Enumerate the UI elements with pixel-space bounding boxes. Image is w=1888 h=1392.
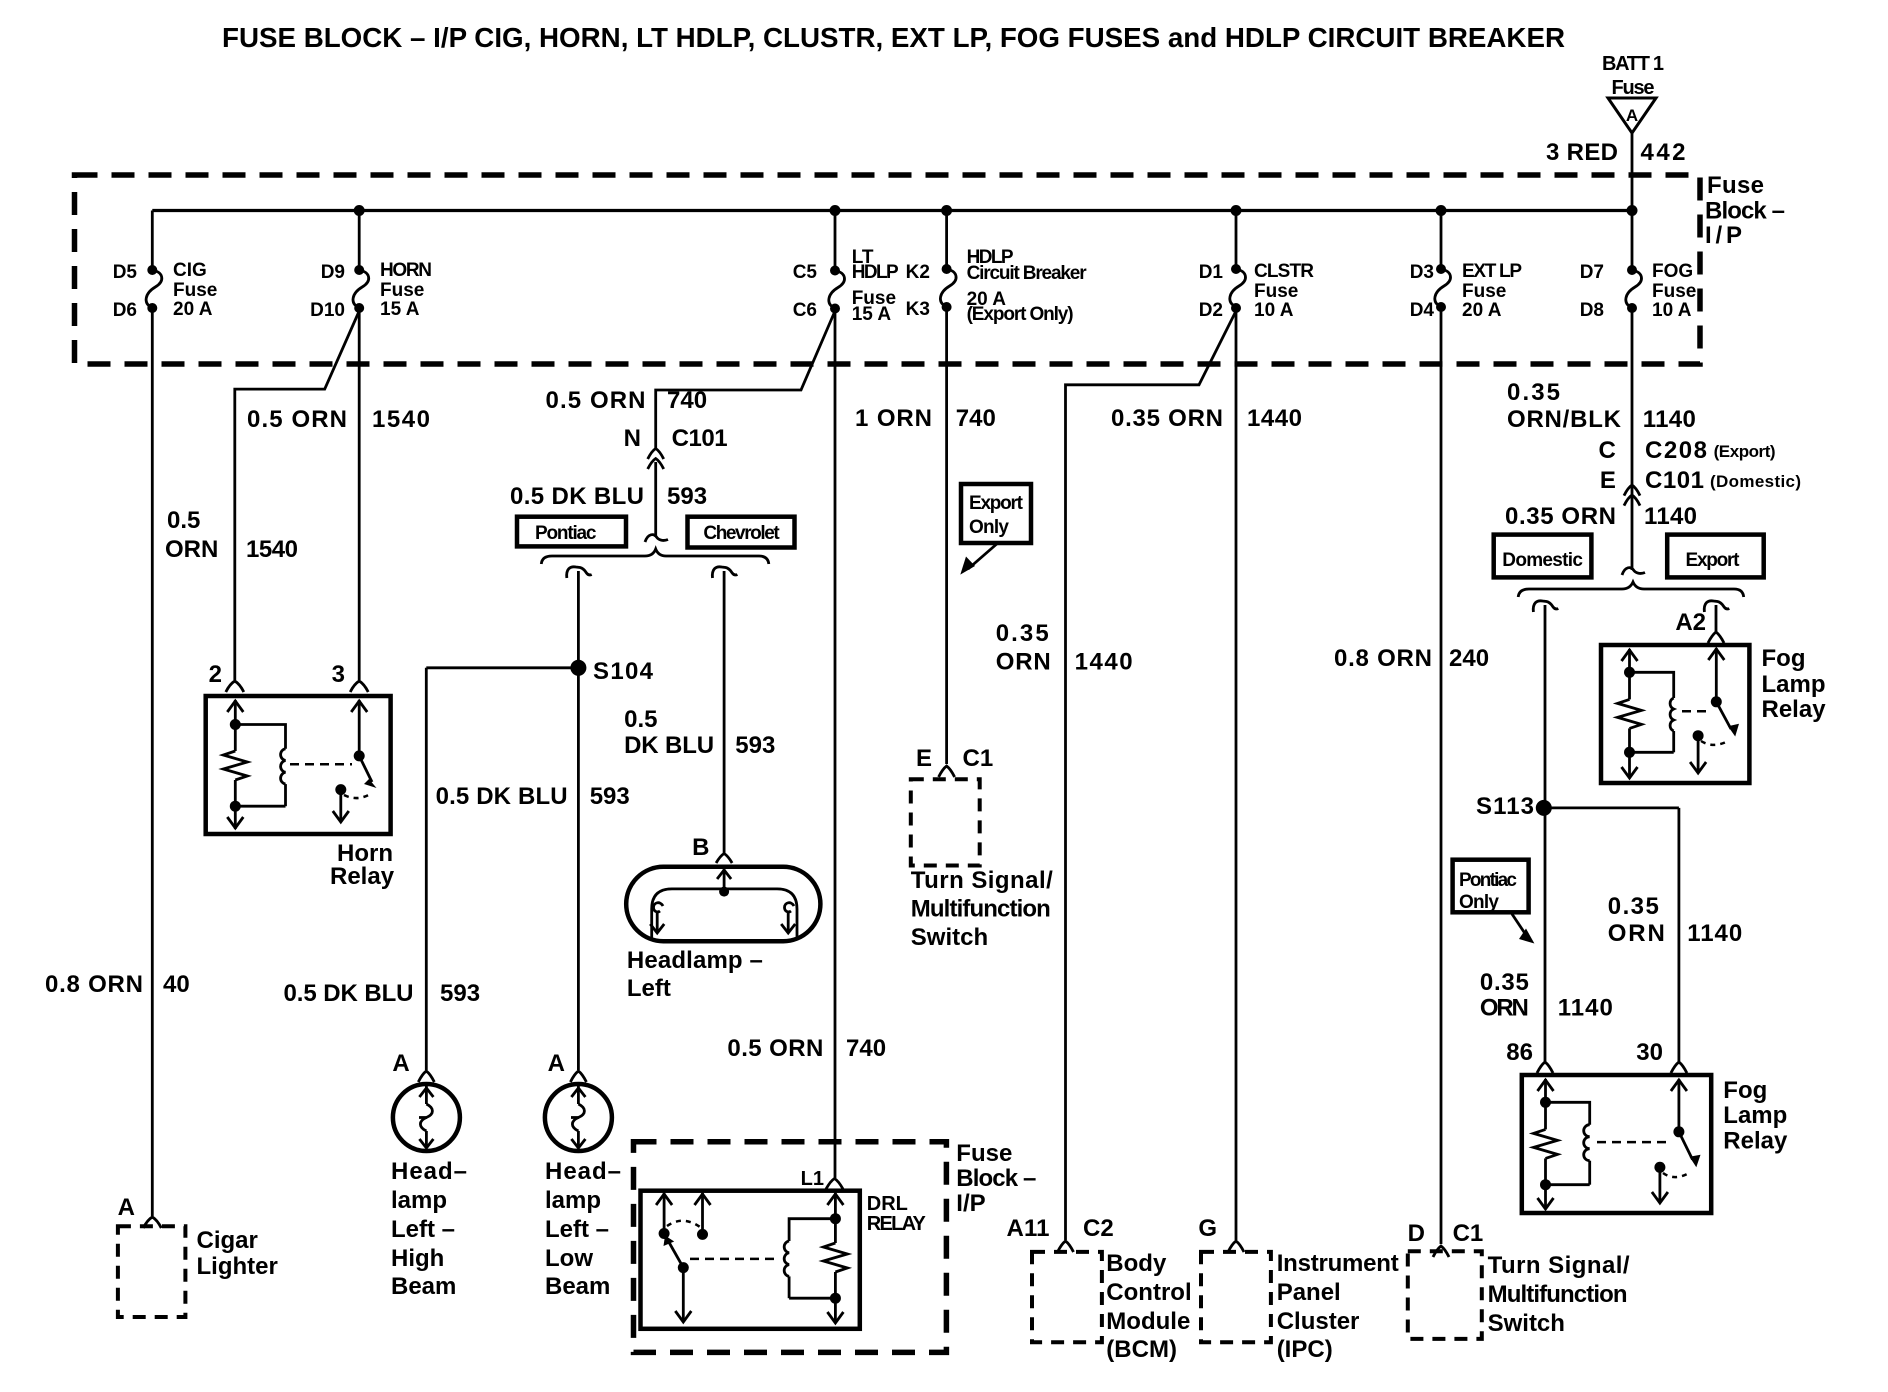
relay DRL RELAY box [641, 1191, 860, 1329]
box Pontiac Only callout [1453, 860, 1535, 944]
wire HORN column (ckt 1540) [358, 308, 361, 680]
svg-text:C2: C2 [1083, 1215, 1114, 1242]
svg-text:DRL: DRL [867, 1193, 908, 1215]
wire S113 horizontal [1544, 807, 1679, 810]
pin A headlamp low beam [548, 1050, 587, 1082]
svg-text:N: N [624, 425, 641, 452]
pin A headlamp high beam [392, 1050, 434, 1082]
svg-text:1540: 1540 [372, 406, 430, 433]
svg-text:DK BLU: DK BLU [624, 732, 714, 759]
svg-text:D2: D2 [1199, 300, 1223, 321]
wire CLSTR column (ckt 1440) [1235, 308, 1238, 1240]
svg-text:Beam: Beam [391, 1273, 456, 1300]
lamp Headlamp Left (dual) [626, 867, 820, 941]
brace split Pontiac/Chevrolet [541, 549, 769, 564]
label 0.8 ORN 40 [45, 971, 190, 998]
svg-text:Fuse: Fuse [173, 280, 217, 301]
svg-text:(Domestic): (Domestic) [1710, 472, 1801, 491]
svg-text:Left –: Left – [391, 1216, 455, 1243]
svg-text:593: 593 [667, 483, 707, 510]
svg-text:740: 740 [956, 405, 996, 432]
node bus junction dots [354, 205, 1638, 216]
label 0.35 ORN 1440 [1111, 405, 1302, 432]
svg-text:1440: 1440 [1075, 649, 1133, 676]
svg-text:442: 442 [1641, 139, 1686, 166]
svg-text:C1: C1 [963, 745, 994, 772]
label 0.5 ORN 1540 [247, 406, 430, 433]
svg-text:40: 40 [163, 971, 190, 998]
svg-text:Pontiac: Pontiac [1459, 870, 1517, 891]
svg-text:Relay: Relay [1723, 1128, 1788, 1155]
label Headlamp Left High Beam [391, 1158, 467, 1300]
svg-text:0.35: 0.35 [1507, 379, 1560, 406]
svg-text:Left –: Left – [545, 1216, 609, 1243]
DRL relay switch contacts [656, 1193, 710, 1322]
pin L1 DRL relay [801, 1168, 843, 1190]
svg-text:1140: 1140 [1687, 920, 1742, 947]
svg-text:0.5 ORN: 0.5 ORN [546, 387, 646, 414]
fog relay (export) resistor line [1618, 649, 1642, 778]
svg-text:2: 2 [209, 661, 222, 688]
pin B headlamp left [692, 834, 732, 863]
label 0.5 DK BLU 593 [510, 483, 707, 510]
box Export Only callout [960, 484, 1031, 575]
svg-text:D10: D10 [310, 300, 345, 321]
label 0.5 DK BLU 593 (high beam) [284, 980, 481, 1007]
svg-text:15 A: 15 A [852, 304, 892, 325]
svg-text:lamp: lamp [391, 1187, 447, 1214]
svg-text:0.5 DK BLU: 0.5 DK BLU [436, 783, 568, 810]
svg-text:Relay: Relay [1762, 696, 1827, 723]
label Headlamp Left Low Beam [545, 1158, 621, 1300]
DRL relay dashed actuator link [690, 1258, 777, 1261]
svg-text:Lamp: Lamp [1723, 1102, 1787, 1129]
cigar lighter [118, 1226, 278, 1317]
svg-text:C101: C101 [672, 425, 728, 452]
svg-text:Lamp: Lamp [1762, 671, 1826, 698]
box Pontiac [517, 517, 626, 547]
svg-text:A: A [1626, 106, 1638, 125]
turn signal multifunction switch (middle) [911, 779, 1053, 951]
pin 2 horn relay [209, 661, 244, 692]
svg-text:Fuse: Fuse [1612, 77, 1655, 99]
svg-text:EXT LP: EXT LP [1462, 261, 1522, 282]
svg-text:S104: S104 [593, 658, 654, 685]
wire Domestic branch hook [1533, 601, 1558, 612]
svg-text:Body: Body [1106, 1250, 1167, 1277]
svg-text:593: 593 [440, 980, 480, 1007]
relay Fog Lamp Relay box [1522, 1075, 1711, 1213]
wire Export branch hook [1704, 601, 1729, 612]
svg-text:Fuse: Fuse [380, 280, 424, 301]
svg-text:15 A: 15 A [380, 299, 420, 320]
svg-text:A: A [548, 1050, 565, 1077]
wire D10 branch to horn relay pin 2 [235, 311, 359, 680]
svg-text:30: 30 [1636, 1039, 1663, 1066]
svg-text:1140: 1140 [1643, 406, 1696, 433]
svg-text:Fuse: Fuse [1652, 281, 1696, 302]
svg-text:ORN: ORN [1480, 995, 1529, 1022]
wire S113 right branch (to relay 30) [1678, 808, 1681, 1062]
svg-text:D4: D4 [1410, 300, 1435, 321]
svg-text:0.8 ORN: 0.8 ORN [45, 971, 143, 998]
svg-text:Block –: Block – [956, 1165, 1036, 1192]
wire Pontiac branch (to S104) [577, 571, 580, 668]
pin G IPC [1198, 1215, 1244, 1252]
svg-text:D1: D1 [1199, 262, 1224, 283]
svg-text:(Export): (Export) [1714, 442, 1776, 461]
svg-text:1540: 1540 [246, 536, 298, 563]
svg-text:High: High [391, 1245, 444, 1272]
svg-text:Module: Module [1106, 1308, 1190, 1335]
label 0.5 DK BLU 593 (low beam) [436, 783, 630, 810]
pin 86 fog lamp relay [1506, 1039, 1553, 1073]
svg-text:0.5 DK BLU: 0.5 DK BLU [510, 483, 644, 510]
wire HDLP CB column (ckt 740) [945, 307, 948, 764]
DRL relay coil [784, 1219, 835, 1299]
svg-text:(Export Only): (Export Only) [967, 304, 1074, 325]
svg-text:Lighter: Lighter [197, 1253, 278, 1280]
pin A2 fog lamp relay [1675, 609, 1724, 643]
label 0.35 ORN 1140 (left branch) [1480, 969, 1613, 1022]
svg-text:0.35: 0.35 [1608, 893, 1659, 920]
svg-text:1440: 1440 [1247, 405, 1302, 432]
label 0.35 ORN 1140 (right branch) [1608, 893, 1742, 947]
svg-text:0.5 ORN: 0.5 ORN [247, 406, 347, 433]
label 0.35 ORN 1440 (branch) [996, 620, 1133, 676]
svg-text:10 A: 10 A [1652, 300, 1692, 321]
label 0.5 ORN 740 (branch) [546, 387, 708, 414]
svg-text:lamp: lamp [545, 1187, 601, 1214]
svg-text:Switch: Switch [911, 924, 988, 951]
pin D C1 turn signal switch [1408, 1220, 1484, 1257]
svg-text:(IPC): (IPC) [1277, 1336, 1333, 1363]
svg-text:Only: Only [1459, 892, 1499, 913]
svg-text:Low: Low [545, 1245, 593, 1272]
svg-text:E: E [916, 745, 932, 772]
fuse LT HDLP (C5/C6, 15 A) [793, 211, 899, 326]
svg-text:BATT 1: BATT 1 [1602, 53, 1664, 75]
svg-text:Panel: Panel [1277, 1279, 1341, 1306]
fog relay (export) coil [1630, 672, 1674, 752]
lamp Headlamp Left High Beam [393, 1084, 460, 1151]
label 0.5 ORN 740 (DRL feed) [727, 1035, 886, 1062]
svg-text:D: D [1408, 1220, 1425, 1247]
svg-text:C: C [1599, 437, 1616, 464]
fog relay resistor line (86) [1534, 1079, 1558, 1209]
svg-text:Cigar: Cigar [197, 1227, 258, 1254]
svg-text:Multifunction: Multifunction [1488, 1281, 1628, 1308]
svg-text:Fog: Fog [1762, 645, 1806, 672]
wire S104 horizontal to high beam [426, 666, 578, 669]
horn relay switch (pin 3) [333, 700, 377, 822]
label Horn Relay [330, 840, 395, 890]
label DRL RELAY [867, 1193, 927, 1235]
wire high beam column [425, 668, 428, 1070]
svg-text:20 A: 20 A [173, 299, 213, 320]
svg-text:0.5: 0.5 [167, 507, 200, 534]
svg-text:3 RED: 3 RED [1546, 139, 1618, 166]
svg-text:Block –: Block – [1705, 198, 1785, 225]
wire D2 branch to BCM [1066, 311, 1237, 1240]
wire EXT LP column (ckt 240) [1440, 307, 1443, 1244]
svg-text:C5: C5 [793, 262, 818, 283]
connector E C101 (Domestic) [1600, 467, 1801, 506]
svg-text:0.35: 0.35 [1480, 969, 1529, 996]
node S113 splice [1476, 793, 1552, 820]
wire end hook above brace (FOG) [1622, 568, 1645, 575]
wire bus [152, 209, 1632, 212]
fuse HORN (D9/D10, 15 A) [310, 211, 432, 322]
fuse block I/P bottom dashed box [634, 1142, 947, 1353]
svg-text:B: B [692, 834, 709, 861]
svg-text:D5: D5 [113, 262, 138, 283]
pin A11 C2 BCM [1007, 1215, 1114, 1252]
svg-text:Switch: Switch [1488, 1310, 1565, 1337]
label 0.35 ORN/BLK 1140 [1507, 379, 1696, 433]
svg-text:0.35 ORN: 0.35 ORN [1111, 405, 1223, 432]
svg-text:I/P: I/P [956, 1190, 985, 1217]
svg-text:0.8 ORN: 0.8 ORN [1334, 645, 1432, 672]
svg-text:Relay: Relay [330, 863, 395, 890]
wire FOG column (ckt 1140) [1631, 308, 1634, 570]
svg-text:D3: D3 [1410, 262, 1434, 283]
svg-text:3: 3 [332, 661, 345, 688]
node S104 splice [570, 658, 653, 685]
svg-text:Head–: Head– [545, 1158, 621, 1185]
connector N C101 [624, 425, 728, 537]
svg-text:HDLP: HDLP [852, 262, 899, 283]
label 0.35 ORN 1140 [1505, 503, 1697, 530]
label 1 ORN 740 [855, 405, 996, 432]
svg-text:ORN: ORN [1608, 920, 1665, 947]
svg-text:Head–: Head– [391, 1158, 467, 1185]
wire LT HDLP column (ckt 740) [834, 309, 837, 1179]
pin E C1 turn signal switch [916, 745, 993, 777]
svg-text:Pontiac: Pontiac [535, 523, 597, 544]
svg-text:C6: C6 [793, 300, 817, 321]
svg-text:Export: Export [969, 493, 1024, 514]
svg-text:A11: A11 [1007, 1215, 1050, 1242]
svg-text:C208: C208 [1645, 437, 1707, 464]
fuse block I/P dashed box [75, 175, 1701, 364]
label Headlamp Left [627, 947, 763, 1002]
svg-text:ORN: ORN [165, 536, 218, 563]
circuit breaker HDLP (K2/K3, 20 A, Export Only) [906, 211, 1088, 326]
connector C C208 (Export) [1599, 437, 1776, 464]
svg-text:740: 740 [667, 387, 707, 414]
svg-text:HORN: HORN [380, 260, 432, 281]
svg-text:1 ORN: 1 ORN [855, 405, 932, 432]
svg-text:0.5 ORN: 0.5 ORN [727, 1035, 823, 1062]
svg-text:0.5: 0.5 [624, 706, 657, 733]
fog relay (export) switch [1690, 648, 1739, 773]
svg-text:Instrument: Instrument [1277, 1250, 1399, 1277]
svg-text:CLSTR: CLSTR [1254, 261, 1314, 282]
svg-text:Control: Control [1106, 1279, 1191, 1306]
wire BATT feed [1631, 133, 1634, 211]
svg-text:L1: L1 [801, 1168, 824, 1190]
wire Domestic branch (to S113 and relay 86) [1544, 605, 1547, 1062]
label 0.8 ORN 240 [1334, 645, 1489, 672]
fuse FOG (D7/D8, 10 A) [1580, 211, 1697, 322]
label 0.5 ORN 1540 (branch) [165, 507, 298, 563]
fog relay (export) dashed actuator link [1682, 710, 1708, 713]
box Export [1667, 535, 1764, 578]
svg-text:Fuse: Fuse [1254, 281, 1298, 302]
svg-text:RELAY: RELAY [867, 1213, 927, 1235]
svg-text:K2: K2 [906, 262, 930, 283]
fuse CLSTR (D1/D2, 10 A) [1199, 211, 1315, 322]
label Fog Lamp Relay (export) [1762, 645, 1827, 723]
wire Pontiac branch hook [567, 567, 592, 578]
relay Horn Relay box [206, 696, 391, 834]
svg-text:K3: K3 [906, 299, 930, 320]
svg-text:Turn Signal/: Turn Signal/ [1488, 1252, 1630, 1279]
svg-text:1140: 1140 [1644, 503, 1697, 530]
svg-text:Fuse: Fuse [1462, 281, 1506, 302]
label Fuse Block I/P [1705, 172, 1785, 249]
fog relay switch (30) [1652, 1079, 1701, 1203]
svg-text:FOG: FOG [1652, 261, 1693, 282]
wire CIG column (ckt 40) [151, 308, 154, 1216]
svg-text:ORN/BLK: ORN/BLK [1507, 406, 1622, 433]
svg-text:0.5 DK BLU: 0.5 DK BLU [284, 980, 414, 1007]
svg-text:Fog: Fog [1723, 1077, 1767, 1104]
svg-text:Domestic: Domestic [1502, 550, 1583, 571]
node A cigar lighter connector [118, 1194, 162, 1228]
svg-text:D7: D7 [1580, 262, 1604, 283]
wire Chevrolet branch (to headlamp B) [723, 571, 726, 854]
svg-text:20 A: 20 A [1462, 300, 1502, 321]
svg-text:240: 240 [1449, 645, 1489, 672]
instrument panel cluster IPC [1201, 1250, 1399, 1363]
svg-text:D6: D6 [113, 300, 137, 321]
svg-text:Fuse: Fuse [1707, 172, 1764, 199]
svg-text:ORN: ORN [996, 649, 1051, 676]
svg-text:Only: Only [969, 517, 1009, 538]
wire Chevrolet branch hook [712, 567, 737, 578]
box Domestic [1494, 535, 1592, 578]
svg-text:E: E [1600, 467, 1616, 494]
svg-text:S113: S113 [1476, 793, 1534, 820]
svg-text:Beam: Beam [545, 1273, 610, 1300]
horn relay dashed actuator link [290, 763, 352, 766]
fuse BATT 1 triangle symbol A [1608, 98, 1656, 133]
svg-text:A2: A2 [1675, 609, 1706, 636]
fog relay coil [1546, 1102, 1590, 1184]
box Chevrolet [688, 517, 795, 548]
svg-text:D8: D8 [1580, 300, 1604, 321]
wire C6 branch to connector C101 [656, 311, 835, 449]
svg-text:Left: Left [627, 975, 671, 1002]
svg-text:593: 593 [735, 732, 775, 759]
svg-text:C101: C101 [1645, 467, 1704, 494]
svg-text:Chevrolet: Chevrolet [703, 523, 780, 544]
pin 30 fog lamp relay [1636, 1039, 1687, 1073]
relay Fog Lamp Relay (export) box [1601, 645, 1749, 783]
svg-text:0.35: 0.35 [996, 620, 1049, 647]
fuse EXT LP (D3/D4, 20 A) [1410, 211, 1523, 322]
label 0.5 DK BLU 593 (Chevrolet branch) [624, 706, 775, 759]
svg-text:FUSE BLOCK – I/P CIG, HORN, LT: FUSE BLOCK – I/P CIG, HORN, LT HDLP, CLU… [222, 22, 1565, 53]
svg-text:10 A: 10 A [1254, 300, 1294, 321]
svg-text:Export: Export [1686, 550, 1741, 571]
svg-text:(BCM): (BCM) [1106, 1336, 1177, 1363]
svg-text:Fuse: Fuse [956, 1140, 1012, 1167]
lamp Headlamp Left Low Beam [545, 1084, 612, 1151]
svg-text:A: A [392, 1050, 409, 1077]
label Fuse Block I/P (bottom) [956, 1140, 1036, 1217]
fog relay dashed actuator link [1597, 1141, 1670, 1144]
horn relay pin2 internal line with arrows and resistor [223, 700, 247, 829]
wire end hook above brace [645, 535, 668, 542]
svg-text:1140: 1140 [1558, 995, 1613, 1022]
horn relay coil [235, 725, 285, 807]
label Fog Lamp Relay [1723, 1077, 1788, 1155]
svg-text:G: G [1198, 1215, 1217, 1242]
turn signal multifunction switch (right) [1408, 1251, 1630, 1339]
body control module BCM [1032, 1250, 1192, 1363]
svg-text:Multifunction: Multifunction [911, 896, 1051, 923]
brace split Domestic/Export [1518, 582, 1744, 597]
svg-text:86: 86 [1506, 1039, 1533, 1066]
svg-text:740: 740 [846, 1035, 886, 1062]
label 3 RED 442 [1546, 139, 1686, 166]
svg-text:CIG: CIG [173, 260, 207, 281]
svg-text:Headlamp –: Headlamp – [627, 947, 763, 974]
wire Export branch (to A2) [1715, 605, 1718, 632]
svg-text:A: A [118, 1194, 135, 1221]
DRL relay resistor line (L1 pin) [823, 1193, 847, 1323]
svg-text:Turn Signal/: Turn Signal/ [911, 867, 1053, 894]
svg-text:Cluster: Cluster [1277, 1308, 1360, 1335]
svg-text:D9: D9 [321, 262, 345, 283]
svg-text:593: 593 [590, 783, 630, 810]
svg-text:C1: C1 [1453, 1220, 1484, 1247]
svg-text:Circuit Breaker: Circuit Breaker [967, 263, 1088, 284]
svg-text:0.35 ORN: 0.35 ORN [1505, 503, 1616, 530]
wire low beam column [577, 668, 580, 1070]
pin 3 horn relay [332, 661, 369, 692]
fuse CIG (D5/D6, 20 A) [113, 211, 218, 322]
